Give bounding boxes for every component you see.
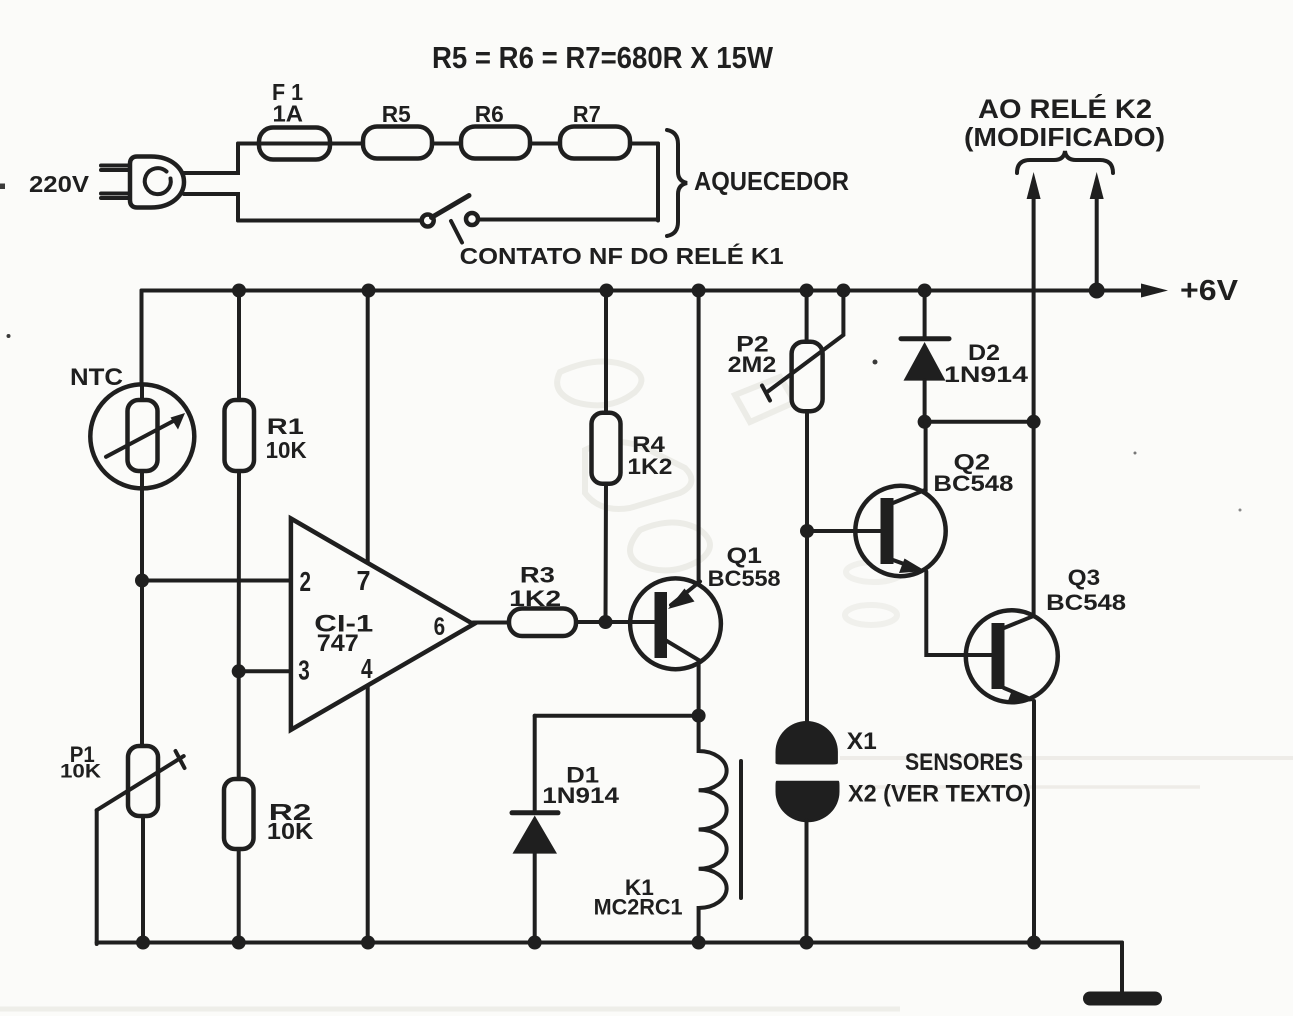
svg-text:MC2RC1: MC2RC1 bbox=[594, 895, 683, 920]
svg-text:10K: 10K bbox=[60, 761, 101, 783]
svg-text:1N914: 1N914 bbox=[944, 362, 1029, 387]
svg-text:7: 7 bbox=[357, 565, 371, 596]
svg-text:1A: 1A bbox=[273, 101, 304, 127]
svg-text:2: 2 bbox=[300, 566, 312, 597]
svg-text:R7: R7 bbox=[573, 101, 601, 127]
svg-text:BC548: BC548 bbox=[1046, 590, 1126, 615]
svg-text:Q1: Q1 bbox=[727, 543, 762, 568]
svg-text:10K: 10K bbox=[266, 437, 307, 463]
svg-text:CONTATO NF DO RELÉ K1: CONTATO NF DO RELÉ K1 bbox=[460, 242, 784, 269]
svg-text:+6V: +6V bbox=[1180, 275, 1239, 307]
svg-text:BC558: BC558 bbox=[708, 566, 781, 591]
svg-text:X1: X1 bbox=[847, 728, 877, 755]
svg-text:6: 6 bbox=[434, 613, 446, 641]
svg-text:R6: R6 bbox=[475, 101, 504, 127]
svg-text:R5 = R6 = R7=680R X 15W: R5 = R6 = R7=680R X 15W bbox=[432, 40, 774, 75]
svg-text:1N914: 1N914 bbox=[542, 783, 620, 808]
svg-text:1K2: 1K2 bbox=[509, 586, 561, 611]
svg-text:AO RELÉ K2: AO RELÉ K2 bbox=[978, 93, 1152, 124]
svg-text:BC548: BC548 bbox=[933, 471, 1013, 496]
svg-text:10K: 10K bbox=[267, 818, 314, 844]
svg-text:X2 (VER TEXTO): X2 (VER TEXTO) bbox=[848, 781, 1031, 808]
svg-text:2M2: 2M2 bbox=[728, 352, 777, 377]
svg-text:Q3: Q3 bbox=[1068, 565, 1101, 590]
svg-text:AQUECEDOR: AQUECEDOR bbox=[694, 166, 849, 196]
svg-text:4: 4 bbox=[361, 653, 373, 684]
svg-text:R1: R1 bbox=[267, 414, 304, 439]
svg-text:220V: 220V bbox=[29, 171, 90, 197]
svg-text:1K2: 1K2 bbox=[627, 454, 672, 479]
svg-text:R3: R3 bbox=[520, 563, 555, 588]
svg-text:3: 3 bbox=[298, 655, 310, 686]
svg-text:R5: R5 bbox=[382, 101, 411, 127]
svg-text:(MODIFICADO): (MODIFICADO) bbox=[964, 122, 1165, 152]
svg-text:SENSORES: SENSORES bbox=[905, 749, 1023, 776]
svg-text:747: 747 bbox=[317, 630, 359, 657]
svg-text:NTC: NTC bbox=[70, 364, 123, 391]
